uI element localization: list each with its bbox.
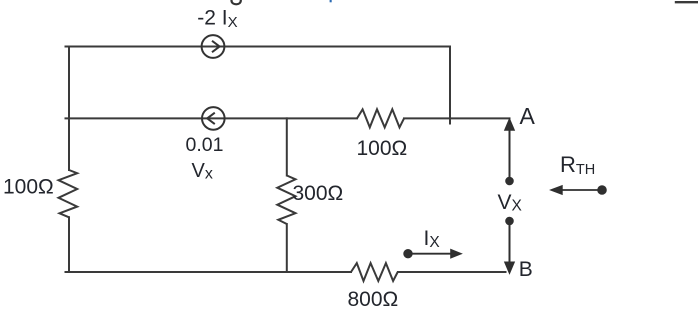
resistor 800Ω (bottom horizontal) (351, 263, 398, 281)
wire: right drop from top wire to middle wire (449, 47, 451, 124)
junction dot (upper, Vx plus) (505, 177, 514, 186)
wire: left vertical (68, 47, 70, 273)
Ix current arrow (bottom) (404, 249, 462, 258)
dependent current source 0.01 Vx (middle) (202, 107, 225, 130)
svg-text:100Ω: 100Ω (3, 175, 54, 198)
R_TH direction arrow (left) (551, 186, 607, 195)
junction dot (lower, Vx minus) (505, 217, 514, 226)
cropped blue text fragment (330, 0, 332, 2)
svg-text:800Ω: 800Ω (348, 288, 399, 311)
resistor 300Ω (middle vertical) (277, 176, 295, 225)
svg-text:100Ω: 100Ω (357, 137, 408, 160)
wire: bottom horizontal (66, 271, 506, 273)
node B arrow (down) (505, 225, 515, 274)
svg-text:300Ω: 300Ω (293, 182, 344, 205)
current source -2 Ix (top) (202, 35, 225, 58)
wire: middle horizontal (66, 117, 510, 119)
resistor 100Ω (left vertical) (59, 170, 78, 217)
svg-text:0.01: 0.01 (186, 134, 224, 156)
svg-text:Vx: Vx (192, 160, 213, 183)
cropped underline fragment top-right (676, 1, 698, 3)
resistor 100Ω (middle horizontal) (357, 109, 404, 127)
svg-text:VX: VX (498, 191, 523, 215)
svg-text:RTH: RTH (560, 152, 595, 178)
svg-text:IX: IX (424, 227, 441, 251)
svg-text:-2 IX: -2 IX (197, 6, 237, 31)
svg-text:B: B (519, 258, 533, 281)
wire: top horizontal (66, 46, 451, 48)
cropped text fragment (descender) (232, 0, 241, 4)
wire: 300 ohm branch leads (286, 118, 288, 272)
node A arrow (up) (505, 119, 515, 177)
svg-text:A: A (520, 103, 536, 129)
